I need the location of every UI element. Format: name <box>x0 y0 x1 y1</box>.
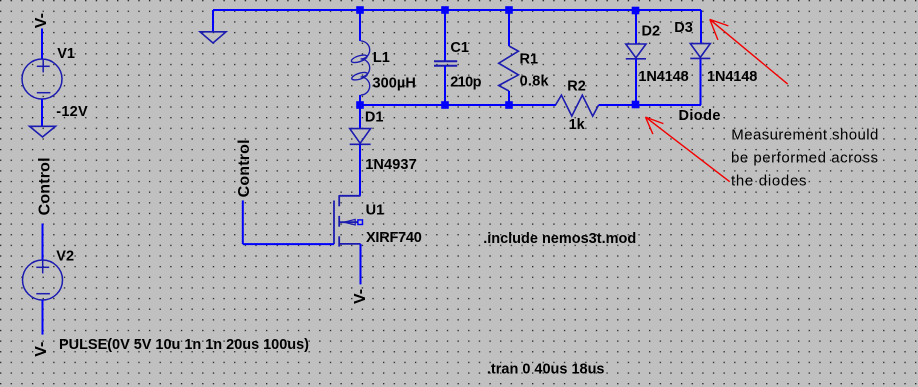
wire V1 top <box>41 29 43 60</box>
svg-text:.include nemos3t.mod: .include nemos3t.mod <box>483 231 636 247</box>
resistor R2 <box>556 95 599 116</box>
svg-text:D3: D3 <box>674 20 693 36</box>
svg-text:1N4148: 1N4148 <box>707 69 757 85</box>
wire top rail <box>213 9 701 11</box>
voltage source V2 <box>23 260 63 300</box>
svg-text:1N4937: 1N4937 <box>365 157 417 173</box>
svg-text:R2: R2 <box>567 79 586 95</box>
svg-text:D1: D1 <box>365 109 384 125</box>
svg-text:L1: L1 <box>373 50 390 66</box>
svg-text:-12V: -12V <box>56 104 88 120</box>
svg-text:D2: D2 <box>642 23 661 39</box>
svg-text:300µH: 300µH <box>373 75 416 91</box>
wire R1 bottom lead <box>508 91 510 105</box>
wire D3 bottom lead <box>700 58 702 105</box>
red arrow 2 <box>646 117 730 182</box>
wire D2 top lead <box>635 10 637 44</box>
svg-text:Control: Control <box>36 157 53 215</box>
svg-text:C1: C1 <box>450 40 469 56</box>
junction L1 top <box>356 6 364 14</box>
wire L1 top lead <box>359 10 361 41</box>
svg-text:.tran 0 40us 18us: .tran 0 40us 18us <box>487 361 605 377</box>
svg-text:R1: R1 <box>520 52 539 68</box>
wire C1 bottom lead <box>444 66 446 105</box>
wire ground stub top-left <box>212 10 214 32</box>
svg-text:Measurement should: Measurement should <box>731 126 878 143</box>
svg-text:210p: 210p <box>450 74 481 90</box>
wire right drop to D3 <box>700 10 702 44</box>
wire L1 bottom lead <box>359 95 361 105</box>
svg-text:1N4148: 1N4148 <box>638 69 688 85</box>
svg-text:1k: 1k <box>569 117 586 133</box>
junction D2 bottom <box>632 101 640 109</box>
svg-text:V1: V1 <box>57 46 75 62</box>
wire D1 to drain <box>359 145 361 196</box>
wire D1 top lead <box>359 105 361 129</box>
wire V2 bottom <box>42 300 44 335</box>
svg-text:PULSE(0V 5V 10u 1n 1n 20us 100: PULSE(0V 5V 10u 1n 1n 20us 100us) <box>59 337 309 353</box>
wire bottom rail left <box>360 104 556 106</box>
svg-text:be performed across: be performed across <box>731 149 878 166</box>
svg-text:V2: V2 <box>56 248 74 264</box>
transistor U1 <box>334 195 361 246</box>
junction R1 bottom <box>505 101 513 109</box>
ground GND2 <box>30 126 56 137</box>
svg-text:V-: V- <box>33 13 50 28</box>
wire gate <box>243 243 334 245</box>
wire C1 top lead <box>444 10 446 61</box>
red arrow 1 <box>710 19 788 84</box>
wire R1 top lead <box>508 10 510 46</box>
diode D3 <box>690 44 710 59</box>
svg-text:V-: V- <box>33 342 50 357</box>
wire V1 bottom <box>41 99 43 126</box>
junction D2 top <box>632 7 640 15</box>
junction C1 bottom <box>441 101 449 109</box>
wire control vertical <box>242 200 244 244</box>
svg-text:U1: U1 <box>366 203 385 219</box>
wire V2 top <box>42 224 44 261</box>
svg-text:V-: V- <box>352 289 369 304</box>
wire D2 bottom lead <box>635 59 637 105</box>
capacitor C1 <box>434 61 457 66</box>
voltage source V1 <box>22 59 62 99</box>
svg-text:0.8k: 0.8k <box>520 73 550 89</box>
pin square U1 <box>358 220 363 225</box>
resistor R1 <box>499 46 519 91</box>
U1 body arrow <box>344 219 355 225</box>
junction C1 top <box>441 6 449 14</box>
diode D1 <box>350 129 371 145</box>
junction R1 top <box>505 6 513 14</box>
svg-text:Control: Control <box>236 139 253 197</box>
svg-text:XIRF740: XIRF740 <box>366 230 422 246</box>
junction D1/L1 node <box>356 101 364 109</box>
svg-text:Diode: Diode <box>679 108 721 124</box>
wire bottom rail right <box>636 104 701 106</box>
diode D2 <box>626 44 646 59</box>
wire source down <box>360 244 362 285</box>
wire R2 right lead <box>599 104 636 106</box>
inductor L1 <box>351 41 370 95</box>
ground GND1 <box>200 32 226 43</box>
svg-text:the diodes: the diodes <box>731 173 807 190</box>
